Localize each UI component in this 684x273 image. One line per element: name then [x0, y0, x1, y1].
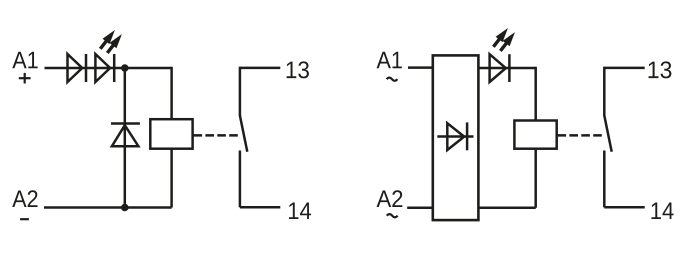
- contact label 13 (left): [287, 61, 309, 78]
- terminal label A1 (left module): [12, 52, 37, 69]
- freewheeling diode triangle: [112, 125, 138, 146]
- contact blade (left): [240, 116, 247, 152]
- LED D3 triangle (right): [490, 54, 506, 82]
- wire right A1 lead: [408, 66, 433, 69]
- contact label 14 (right): [651, 202, 673, 219]
- LED D3 emission arrows (right): [493, 28, 515, 51]
- bridge diode cathode bar: [466, 122, 469, 150]
- contact fixed post top (right): [603, 67, 606, 116]
- LED D2 triangle: [95, 54, 110, 82]
- wire coil bottom corner (right): [534, 149, 537, 208]
- contact label 14 (left): [289, 202, 311, 219]
- wire coil return to box (right): [478, 206, 535, 209]
- contact 13 lead (left): [240, 67, 280, 70]
- contact 14 lead (right): [604, 206, 644, 209]
- relay coil K1: [150, 119, 192, 149]
- mechanical link (dashed) left: [194, 134, 239, 137]
- contact fixed post bottom (right): [603, 151, 606, 208]
- AC mark ~ (below right A1): [387, 78, 398, 81]
- wire A1 lead to corner: [45, 67, 172, 70]
- LED D3 cathode bar (right): [508, 54, 511, 82]
- terminal label A1 (right module): [377, 52, 402, 69]
- wire box to LED: [478, 67, 535, 70]
- contact fixed post top (left): [239, 67, 242, 116]
- junction node (A2 wire / freewheeling diode): [121, 204, 129, 212]
- bridge rectifier box: [433, 55, 479, 220]
- freewheeling diode cathode bar: [111, 122, 140, 125]
- relay coil K2 (right): [514, 121, 556, 149]
- wire right A2 lead: [407, 206, 433, 209]
- polarity mark + (below A1): [19, 73, 31, 84]
- contact label 13 (right): [649, 61, 672, 78]
- bridge diode lead: [437, 135, 473, 138]
- wire LED corner down to relay coil (right): [534, 67, 537, 121]
- bridge diode triangle: [447, 123, 464, 150]
- junction node (A1 wire / freewheeling diode): [121, 64, 129, 72]
- wire coil bottom to A2 rail: [170, 149, 173, 208]
- terminal label A2 (left module): [12, 190, 37, 207]
- AC mark ~ (below right A2): [387, 214, 398, 217]
- contact 13 lead (right): [604, 67, 644, 70]
- contact blade (right): [604, 116, 611, 152]
- freewheeling diode branch wire: [124, 68, 127, 208]
- LED D2 emission arrows: [100, 30, 122, 53]
- polarity mark - (below A2): [20, 218, 29, 220]
- terminal label A2 (right module): [377, 190, 403, 207]
- contact 14 lead (left): [240, 206, 280, 209]
- wire corner down to relay coil: [170, 67, 173, 119]
- mechanical link (dashed) right: [558, 134, 603, 137]
- diode D1 cathode bar: [85, 54, 88, 82]
- wire A2 rail: [44, 206, 172, 209]
- contact fixed post bottom (left): [239, 151, 242, 208]
- LED D2 cathode bar: [113, 54, 116, 82]
- diode D1 triangle: [68, 54, 83, 82]
